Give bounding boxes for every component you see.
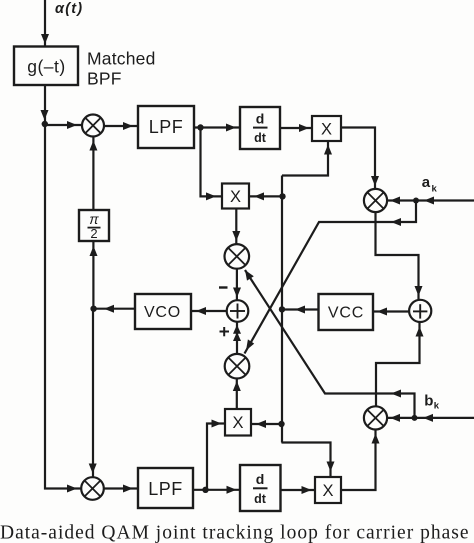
- arrow into b_k multiplier bottom: [372, 434, 380, 444]
- wire clock top branch to X1 bottom: [282, 141, 328, 176]
- arrow into bottom d/dt left: [227, 486, 237, 494]
- wire a_k branch down and cross diagonal to M6: [245, 201, 417, 354]
- wire VCO junction down to bottom-left multiplier: [92, 309, 94, 477]
- wire b_k branch cross diagonal to M3: [245, 270, 415, 418]
- arrow into M1 bottom: [89, 141, 97, 151]
- svg-text:k: k: [432, 184, 438, 195]
- svg-text:α(t): α(t): [55, 1, 83, 17]
- svg-text:Matched: Matched: [87, 49, 156, 69]
- multiplier M4 bottom-left: [81, 477, 104, 500]
- wire bottom LPF to d/dt: [193, 489, 240, 491]
- wire X2 output down to M3: [235, 209, 237, 245]
- arrow into top multiplier left: [67, 121, 77, 129]
- sampler box X1 top-right: [312, 116, 341, 141]
- wire M4 output to bottom LPF: [104, 487, 138, 489]
- wire a_k multiplier output to right adder top: [376, 212, 419, 299]
- node VCO junction dot: [90, 306, 96, 312]
- wire junction to top multiplier: [45, 124, 82, 126]
- svg-text:k: k: [434, 401, 440, 412]
- svg-text:dt: dt: [254, 492, 267, 506]
- label plus sign: [220, 327, 230, 336]
- arrow into bottom-left multiplier left: [67, 485, 77, 493]
- label a_k: [422, 174, 438, 195]
- wire LPF to d/dt: [194, 126, 240, 128]
- node clock junction top: [279, 193, 285, 199]
- arrow into g(-t) top: [41, 34, 49, 44]
- svg-text:LPF: LPF: [149, 117, 184, 137]
- arrow into S1 top: [233, 288, 241, 298]
- node junction dot after LPF top: [197, 124, 203, 130]
- svg-text:BPF: BPF: [87, 69, 122, 89]
- arrow into d/dt left: [226, 124, 236, 132]
- arrow into S1 bottom: [233, 325, 241, 334]
- wire VCO junction up to pi/2 and M1: [92, 241, 94, 309]
- svg-text:a: a: [422, 174, 431, 191]
- arrow into bottom-left multiplier top: [89, 464, 97, 474]
- wire S1 output to VCO: [191, 310, 227, 312]
- sampler box X2 mid-top: [222, 184, 249, 209]
- arrow on a_k branch horizontal: [391, 218, 401, 226]
- differentiator box d/dt bottom: [240, 465, 281, 511]
- wire bottom LPF junction up to X3 left: [207, 424, 225, 490]
- label d/dt bottom: [253, 471, 268, 506]
- arrow into a_k multiplier right: [390, 197, 400, 205]
- svg-text:X: X: [322, 482, 333, 500]
- node VCC junction dot: [279, 306, 285, 312]
- svg-text:2: 2: [90, 226, 97, 241]
- wire clock to X2 right: [249, 195, 283, 197]
- svg-text:VCO: VCO: [144, 304, 181, 321]
- wire X3 output up to M6 bottom: [236, 379, 238, 410]
- arrow into VCC right: [377, 308, 387, 316]
- arrow into a_k multiplier top: [371, 176, 379, 186]
- arrow above junction: [41, 110, 49, 120]
- multiplier M1 top-left: [82, 115, 104, 137]
- arrow into X4 top: [327, 462, 335, 472]
- sampler box X4 bottom-right: [315, 477, 341, 503]
- svg-text:VCC: VCC: [328, 305, 364, 322]
- wire M1 output to LPF: [104, 125, 138, 127]
- wire bottom d/dt to X4: [281, 489, 316, 491]
- arrow diagonal into M3 bottom-right: [245, 270, 254, 281]
- node junction dot left: [42, 121, 48, 127]
- svg-text:b: b: [424, 393, 433, 410]
- svg-text:dt: dt: [254, 131, 267, 145]
- wire clock to X3 right: [251, 423, 282, 425]
- svg-text:g(–t): g(–t): [27, 57, 65, 77]
- arrow into M3 top: [232, 231, 240, 241]
- multiplier M5 b_k: [364, 406, 387, 429]
- multiplier M6 center-bottom: [225, 354, 250, 379]
- wire M3 output down to adder S1: [236, 269, 238, 301]
- label b_k: [424, 393, 440, 412]
- arrow diagonal into M6 top-right: [246, 339, 254, 350]
- arrow into S2 bottom: [416, 327, 424, 337]
- differentiator box d/dt top: [240, 107, 280, 149]
- wire d/dt to sampler X1: [280, 127, 312, 129]
- wire a_k input from right: [387, 199, 474, 201]
- label d/dt top: [253, 111, 268, 146]
- wire b_k input from right: [387, 417, 474, 419]
- multiplier M3 center-top: [225, 244, 250, 269]
- arrow into X4 left: [302, 486, 312, 494]
- svg-text:X: X: [232, 414, 243, 432]
- label pi/2: [88, 211, 101, 241]
- phase shifter box pi/2: [79, 210, 109, 241]
- arrow on a_k wire right of dot: [424, 197, 434, 205]
- matched filter box g(-t): [14, 47, 78, 86]
- wire right adder output to VCC: [373, 310, 409, 312]
- arrow into M6 bottom: [233, 381, 241, 391]
- wire b_k output to right adder bottom: [376, 322, 420, 407]
- svg-text:LPF: LPF: [148, 479, 183, 499]
- arrow into pi/2 bottom: [90, 246, 98, 256]
- wire X4 output up to b_k multiplier bottom: [341, 430, 376, 491]
- svg-text:X: X: [321, 121, 332, 139]
- arrow on VCO output: [104, 305, 114, 313]
- svg-text:Data-aided QAM joint tracking: Data-aided QAM joint tracking loop for c…: [0, 523, 469, 543]
- wire clock line vertical: [281, 176, 283, 443]
- filter box LPF top: [138, 106, 194, 148]
- svg-text:π: π: [89, 211, 99, 227]
- node junction dot a_k: [413, 198, 419, 204]
- wire left column down: [45, 124, 82, 489]
- filter box LPF bottom: [138, 468, 193, 508]
- wire M6 output up to S1 bottom: [236, 322, 238, 354]
- arrow into b_k multiplier right: [390, 414, 400, 422]
- arrow on b_k branch horizontal: [391, 390, 401, 398]
- arrow on b_k wire right of dot: [423, 414, 433, 422]
- adder S1 center: [227, 300, 249, 322]
- svg-text:d: d: [256, 111, 265, 127]
- arrow into X3 left: [212, 420, 222, 428]
- arrow into X1 bottom: [324, 145, 332, 155]
- arrow into clock junction: [295, 306, 305, 314]
- wire clock bottom branch to X4 top: [282, 443, 331, 478]
- node junction dot after LPF bottom: [202, 487, 208, 493]
- sampler box X3 bottom-mid: [225, 409, 251, 436]
- wire X1 output to a_k multiplier: [341, 128, 375, 190]
- node junction dot b_k: [412, 415, 418, 421]
- clock box VCC: [319, 294, 374, 330]
- arrow into X1 left: [299, 124, 309, 132]
- arrow into X2 right: [254, 192, 264, 200]
- wire LPF junction down to X2 left: [201, 128, 223, 197]
- multiplier M2 a_k: [364, 189, 387, 212]
- wire VCO output to left junction: [94, 308, 135, 310]
- wire input alpha(t) into g(-t): [44, 0, 46, 47]
- oscillator box VCO: [135, 294, 191, 329]
- wire g(-t) output down: [44, 85, 46, 124]
- arrow into X2 left: [206, 192, 216, 200]
- arrow into VCO right: [196, 307, 206, 315]
- node clock junction bottom: [278, 421, 284, 427]
- arrow into LPF left: [123, 122, 133, 130]
- svg-text:d: d: [256, 471, 265, 487]
- label minus sign: [219, 286, 228, 288]
- adder S2 right: [409, 300, 431, 322]
- wire VCC output to clock line: [282, 308, 319, 310]
- wire pi/2 up to M1: [92, 137, 94, 211]
- arrow into right adder top: [415, 286, 423, 296]
- arrow into X3 right: [256, 420, 266, 428]
- arrow into bottom LPF left: [123, 485, 133, 493]
- svg-text:X: X: [230, 188, 241, 206]
